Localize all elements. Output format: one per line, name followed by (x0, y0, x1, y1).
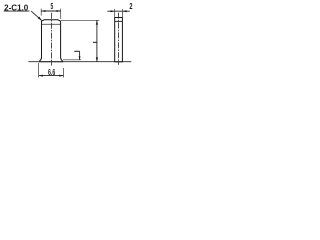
dimension 5 right arrow (57, 10, 61, 12)
dimension 2 left extension line (114, 9, 116, 18)
dimension 6.6 line (39, 75, 64, 77)
leader arrowhead (38, 17, 42, 21)
dimension 6.6 left extension line (38, 63, 40, 78)
foot height dimension line (79, 51, 81, 60)
overall height rotated label (93, 41, 97, 43)
front view body outline (39, 20, 62, 62)
leader diagonal to chamfer (31, 11, 41, 20)
overall height top arrow (96, 20, 98, 24)
dimension 2 line (107, 10, 130, 12)
leader shelf under chamfer note (4, 10, 30, 12)
dimension 5 left extension line (40, 9, 42, 16)
overall height top extension line (61, 19, 99, 21)
front view chamfer line (42, 23, 61, 25)
dimension 6.6 left arrow (39, 75, 43, 77)
svg-text:2: 2 (129, 2, 133, 11)
side view outline (115, 18, 123, 62)
dimension 6.6 right arrow (59, 75, 63, 77)
foot height rotated label (74, 50, 79, 52)
dimension 2 right extension line (121, 9, 123, 18)
dimension 5 left arrow (41, 10, 45, 12)
long bottom baseline (28, 61, 131, 63)
foot step extension line (63, 59, 81, 61)
svg-text:5: 5 (51, 2, 54, 11)
side view chamfer line (115, 20, 123, 22)
side view centerline (118, 13, 120, 65)
dimension 5 line (41, 10, 61, 12)
overall height bottom arrow (96, 57, 98, 61)
overall height dimension line (96, 20, 98, 62)
dimension 2 left arrow (111, 10, 115, 12)
dimension 5 right extension line (60, 9, 62, 19)
foot height dimension arrow (79, 56, 81, 60)
dimension 6.6 right extension line (63, 68, 65, 78)
front view centerline (50, 13, 52, 66)
dimension 2 right arrow (122, 10, 126, 12)
